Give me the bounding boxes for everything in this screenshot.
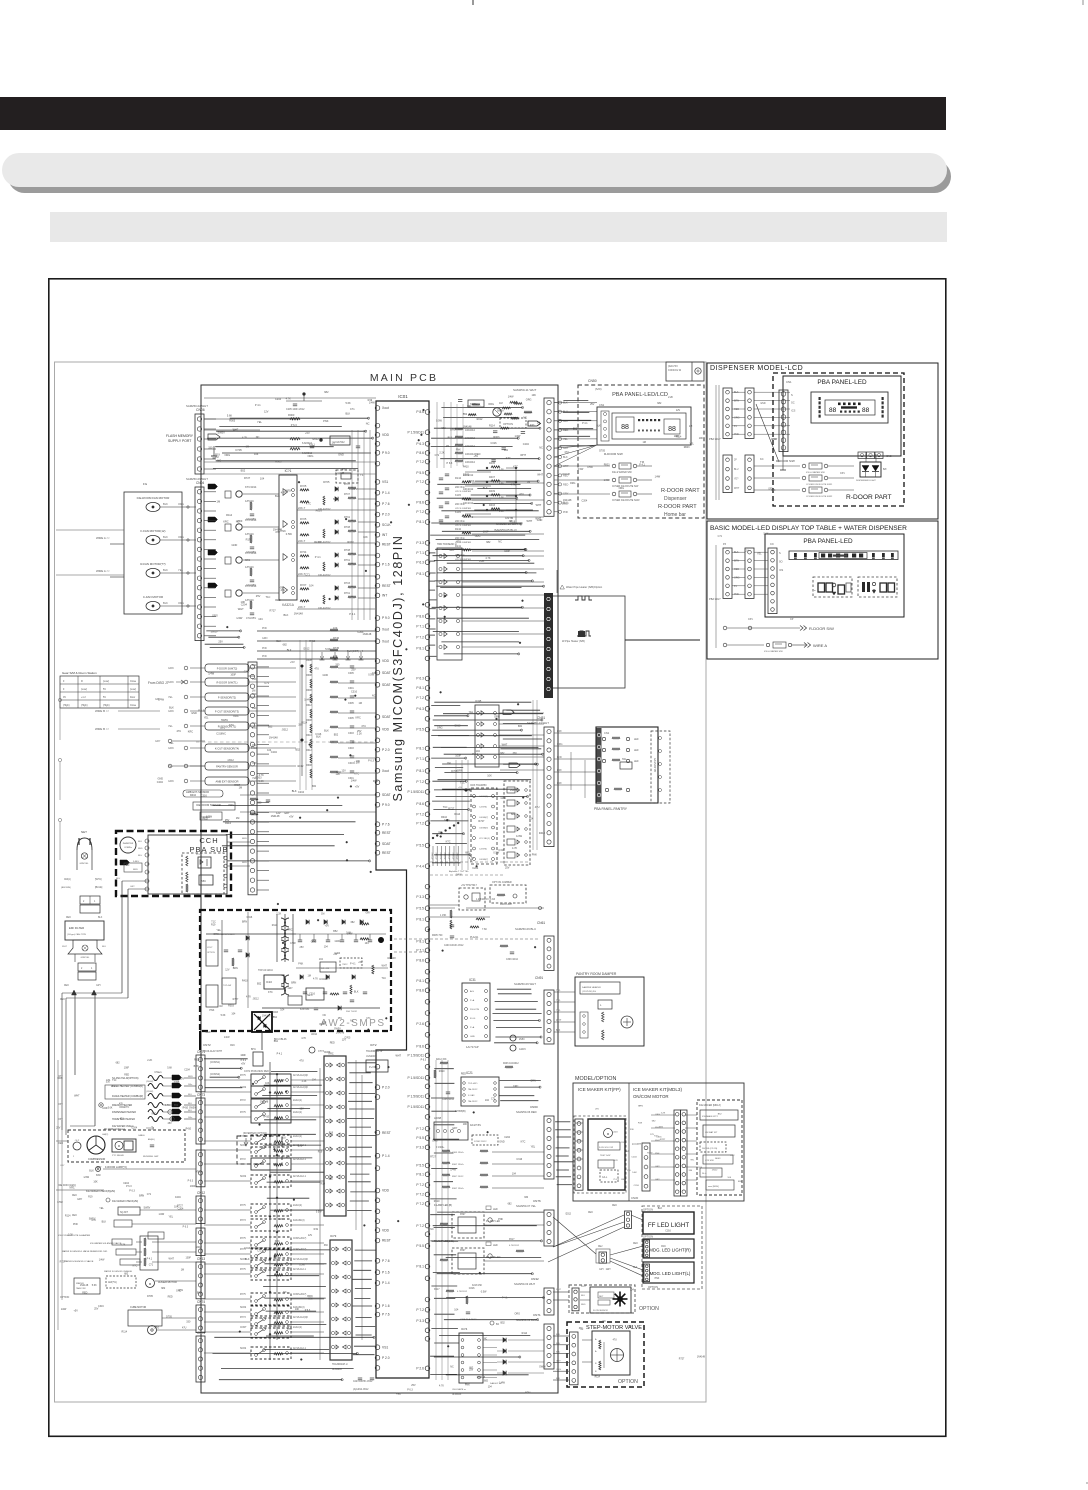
svg-text:P 5.5: P 5.5: [416, 471, 424, 475]
svg-text:/2012: /2012: [311, 1033, 318, 1036]
svg-text:0.5W: 0.5W: [493, 851, 499, 854]
svg-text:330: 330: [208, 446, 213, 449]
svg-text:R410: R410: [263, 1116, 269, 1119]
svg-text:SAM250-09 WHT: SAM250-09 WHT: [186, 477, 208, 481]
svg-text:C305 1904+: C305 1904+: [452, 1152, 465, 1154]
svg-text:P 6.3: P 6.3: [447, 462, 453, 465]
svg-text:BLK: BLK: [483, 487, 488, 490]
svg-text:RED: RED: [563, 483, 568, 486]
svg-text:PNK: PNK: [73, 1223, 78, 1226]
svg-text:OPT: OPT: [58, 1119, 63, 1121]
svg-text:SDAT: SDAT: [382, 715, 391, 719]
svg-text:0.5W: 0.5W: [290, 942, 296, 945]
svg-text:BRF: BRF: [557, 782, 562, 785]
svg-text:PNK: PNK: [498, 1218, 503, 1221]
svg-text:NC: NC: [283, 1291, 287, 1294]
svg-text:2.2K: 2.2K: [439, 452, 444, 455]
svg-text:ICE MAKER KIT(FP): ICE MAKER KIT(FP): [578, 1087, 621, 1092]
svg-text:4CON2: 4CON2: [453, 852, 455, 860]
svg-text:1/4W: 1/4W: [236, 616, 243, 620]
svg-text:RY75: RY75: [240, 1205, 246, 1207]
svg-text:5.6K: 5.6K: [221, 1014, 226, 1017]
svg-text:B52: B52: [241, 469, 246, 473]
svg-text:4CON2: 4CON2: [449, 852, 451, 860]
svg-text:P 4.1: P 4.1: [315, 555, 322, 559]
svg-text:PANTRY ROOM DAMPER: PANTRY ROOM DAMPER: [576, 972, 617, 976]
svg-text:IC21: IC21: [466, 1071, 473, 1075]
svg-text:C71: C71: [220, 727, 225, 730]
svg-text:PNK: PNK: [262, 627, 267, 630]
svg-text:RED: RED: [138, 848, 143, 850]
svg-text:R90? /2012: R90? /2012: [452, 1176, 464, 1178]
svg-text:5.6K: 5.6K: [632, 1172, 637, 1174]
svg-text:R003: R003: [493, 436, 500, 439]
svg-text:NC: NC: [222, 732, 226, 735]
svg-text:12V: 12V: [264, 411, 269, 414]
svg-text:D705: D705: [236, 448, 243, 452]
svg-text:WHT: WHT: [556, 1289, 562, 1291]
svg-text:4.7K: 4.7K: [286, 398, 291, 401]
svg-text:(200W): (200W): [146, 1081, 153, 1083]
svg-text:RED: RED: [60, 999, 65, 1001]
svg-text:P 7.2: P 7.2: [416, 1224, 424, 1228]
svg-text:BLK: BLK: [282, 1137, 287, 1140]
svg-text:PNK: PNK: [262, 647, 267, 650]
svg-text:PNK: PNK: [465, 1384, 470, 1387]
svg-text:2AAC(2): 2AAC(2): [293, 1326, 302, 1329]
svg-text:GRN: GRN: [168, 780, 174, 783]
svg-text:R727: R727: [234, 784, 241, 787]
svg-text:R608: R608: [306, 689, 312, 692]
svg-text:ICE WATER CMGa): ICE WATER CMGa): [112, 1125, 134, 1128]
svg-text:1/4W: 1/4W: [158, 698, 164, 701]
svg-text:C71: C71: [491, 1097, 496, 1100]
svg-text:YEL: YEL: [556, 1010, 561, 1012]
svg-text:KRC: KRC: [275, 1240, 280, 1243]
svg-text:MAIN PCB: MAIN PCB: [370, 372, 438, 384]
svg-text:R003: R003: [228, 1005, 234, 1008]
svg-text:WHT: WHT: [535, 517, 541, 520]
svg-text:SCR2: SCR2: [240, 1176, 247, 1178]
svg-text:VDD: VDD: [382, 659, 390, 663]
svg-text:DISPENSER MODEL-LCD: DISPENSER MODEL-LCD: [710, 365, 803, 372]
svg-text:OPTION: OPTION: [643, 1208, 653, 1212]
svg-text:BLK: BLK: [284, 613, 289, 617]
svg-text:Dispenser: Dispenser: [664, 496, 687, 502]
svg-text:ORG: ORG: [119, 1107, 124, 1109]
svg-text:CN71: CN71: [533, 1313, 541, 1317]
svg-text:47U: 47U: [275, 530, 280, 534]
svg-text:NC: NC: [603, 1321, 607, 1323]
svg-text:BRN: BRN: [139, 1194, 144, 1197]
svg-text:C316: C316: [634, 1185, 640, 1187]
svg-text:C204: C204: [131, 1127, 137, 1130]
svg-text:(S/D): (S/D): [595, 387, 602, 391]
svg-text:P 8.1: P 8.1: [416, 520, 424, 524]
svg-text:BLK: BLK: [169, 706, 174, 709]
svg-text:12V: 12V: [225, 969, 230, 972]
svg-text:CN32: CN32: [531, 1277, 539, 1281]
svg-text:GRY: GRY: [96, 985, 101, 987]
svg-text:47U: 47U: [613, 1340, 618, 1342]
svg-text:R410: R410: [309, 640, 316, 643]
svg-text:REST: REST: [382, 584, 391, 588]
svg-text:NET: NET: [81, 830, 87, 834]
svg-text:2.2K: 2.2K: [68, 1234, 73, 1237]
svg-text:ORG: ORG: [557, 743, 563, 746]
svg-text:SAM250-06 RED: SAM250-06 RED: [516, 1110, 537, 1114]
svg-text:RED: RED: [72, 1195, 77, 1197]
svg-text:OPTION: OPTION: [639, 1306, 659, 1312]
svg-text:BLK: BLK: [102, 946, 107, 948]
svg-text:GRY: GRY: [96, 1166, 102, 1169]
svg-text:P 8.1: P 8.1: [416, 572, 424, 576]
svg-text:R410: R410: [463, 465, 470, 468]
svg-text:104: 104: [319, 958, 324, 961]
svg-text:C316: C316: [665, 1230, 671, 1232]
svg-text:PBA PANEL-LED: PBA PANEL-LED: [817, 379, 867, 386]
svg-text:GRY: GRY: [606, 1269, 611, 1271]
svg-text:104: 104: [324, 945, 329, 948]
svg-text:P 7.2: P 7.2: [416, 696, 424, 700]
svg-text:KTC3194: KTC3194: [245, 485, 257, 489]
svg-text:4.7K: 4.7K: [301, 1037, 306, 1040]
svg-text:K145: K145: [455, 494, 461, 497]
svg-text:SAM250-11 WHT: SAM250-11 WHT: [513, 388, 536, 392]
svg-text:R005 700: R005 700: [432, 934, 443, 937]
svg-text:GRY: GRY: [366, 911, 372, 914]
svg-text:R-DEF-HEATER (COMBA(R): R-DEF-HEATER (COMBA(R): [112, 1095, 143, 1098]
svg-text:RED: RED: [252, 707, 257, 710]
svg-text:/7012: /7012: [342, 964, 348, 966]
svg-text:From DISO J7: From DISO J7: [148, 681, 169, 685]
svg-text:GRY: GRY: [130, 886, 135, 888]
svg-text:P 3.3: P 3.3: [416, 895, 424, 899]
svg-text:/2012: /2012: [303, 648, 310, 651]
svg-text:BLK: BLK: [89, 1170, 94, 1173]
svg-text:K-CUT-SENSOR(T4): K-CUT-SENSOR(T4): [215, 747, 239, 751]
svg-text:BLK: BLK: [188, 1110, 193, 1112]
svg-text:MDG. LED LIGHT(L): MDG. LED LIGHT(L): [650, 1271, 691, 1276]
svg-text:A1015: A1015: [519, 1048, 526, 1051]
svg-text:1M: 1M: [771, 427, 774, 429]
svg-text:P 2.0: P 2.0: [382, 748, 390, 752]
svg-text:AUGER MOTOR: AUGER MOTOR: [158, 1281, 177, 1284]
svg-text:WHT: WHT: [527, 520, 533, 523]
svg-text:ORG: ORG: [252, 762, 258, 765]
svg-text:BRN: BRN: [734, 560, 739, 563]
svg-text:1M: 1M: [689, 425, 692, 428]
svg-text:YEL: YEL: [689, 443, 694, 446]
svg-text:CN50: CN50: [588, 379, 597, 383]
svg-text:JC902 /2012: JC902 /2012: [474, 1141, 487, 1143]
svg-text:KTC: KTC: [506, 457, 511, 460]
svg-text:OPTION: OPTION: [648, 1285, 658, 1289]
svg-text:OPTION: OPTION: [643, 1235, 653, 1239]
svg-text:PK06-11AV WHT: PK06-11AV WHT: [203, 1050, 223, 1053]
svg-text:C-FAN MOTOR: C-FAN MOTOR: [143, 595, 163, 599]
svg-text:IC31: IC31: [469, 978, 476, 982]
svg-text:FG: FG: [143, 482, 148, 486]
svg-text:OPTION: OPTION: [60, 1296, 69, 1299]
svg-text:P 1.5/SD11: P 1.5/SD11: [407, 1105, 424, 1109]
svg-text:DAMPER HEATER: DAMPER HEATER: [582, 986, 601, 989]
svg-text:K597: K597: [460, 1214, 466, 1216]
svg-text:GRN: GRN: [168, 747, 174, 750]
svg-text:CN74: CN74: [197, 1300, 205, 1304]
svg-text:2AAC(2): 2AAC(2): [293, 1135, 302, 1138]
svg-text:RED: RED: [588, 1212, 593, 1214]
svg-text:WHT: WHT: [581, 1286, 587, 1288]
svg-text:CP1: CP1: [840, 472, 845, 475]
svg-text:KRC: KRC: [223, 520, 229, 524]
svg-text:C223 100HF /2012: C223 100HF /2012: [353, 1381, 373, 1383]
svg-text:1N4148: 1N4148: [477, 1376, 486, 1379]
svg-text:R-DOOR S/W: R-DOOR S/W: [776, 459, 795, 463]
svg-text:02-SS-112(2)F: 02-SS-112(2)F: [293, 1317, 309, 1319]
svg-text:+5V: +5V: [279, 586, 284, 590]
svg-text:O4 BB(7): O4 BB(7): [479, 817, 488, 819]
svg-text:200 Ohm: 200 Ohm: [455, 520, 465, 523]
svg-text:SW5V: SW5V: [562, 502, 569, 505]
svg-text:R410: R410: [441, 816, 448, 819]
svg-text:R725: R725: [300, 484, 307, 488]
svg-text:WHT: WHT: [169, 1257, 175, 1260]
svg-text:47U: 47U: [314, 668, 319, 671]
svg-text:SAM250-02 WHT: SAM250-02 WHT: [186, 404, 208, 408]
svg-text:GRY: GRY: [288, 987, 294, 990]
svg-text:25V: 25V: [218, 641, 223, 644]
svg-text:25V: 25V: [590, 403, 595, 406]
svg-text:1/4W: 1/4W: [99, 1259, 105, 1262]
svg-text:LPICS JUMPER: LPICS JUMPER: [455, 525, 471, 527]
svg-text:34>: 34>: [760, 458, 765, 461]
svg-text:P 6.3: P 6.3: [614, 1179, 620, 1181]
svg-text:P 7.2: P 7.2: [416, 1308, 424, 1312]
svg-text:BRF: BRF: [557, 730, 562, 733]
svg-text:PGG P/N: PGG P/N: [470, 1009, 480, 1011]
svg-text:OFY: OFY: [60, 1165, 65, 1167]
svg-text:YEL: YEL: [257, 420, 262, 424]
svg-text:KTC: KTC: [268, 991, 273, 994]
svg-text:BLK: BLK: [316, 735, 321, 738]
svg-text:F-CUT SENSOR(T3): F-CUT SENSOR(T3): [215, 710, 239, 714]
svg-text:(DAI-HXI: (DAI-HXI: [668, 365, 678, 368]
svg-text:KTC: KTC: [521, 1141, 526, 1144]
svg-text:P+A: P+A: [470, 999, 475, 1002]
svg-text:R114: R114: [697, 1167, 703, 1169]
svg-text:R410: R410: [434, 1200, 440, 1203]
svg-text:F-FAN MOTOR(12): F-FAN MOTOR(12): [141, 529, 166, 533]
svg-text:4.7K: 4.7K: [281, 491, 287, 495]
svg-text:R19: R19: [318, 1150, 323, 1153]
svg-text:02-SS-112-1: 02-SS-112-1: [293, 1176, 307, 1178]
svg-text:ICE & WATER S/W: ICE & WATER S/W: [806, 471, 826, 474]
svg-text:Close: Close: [130, 680, 137, 683]
svg-text:YEL: YEL: [447, 762, 452, 765]
svg-text:682: 682: [312, 785, 317, 788]
svg-text:R003: R003: [684, 446, 690, 449]
svg-text:100F: 100F: [237, 519, 243, 523]
svg-text:(BROWN): (BROWN): [61, 887, 71, 889]
svg-text:OPTION: OPTION: [503, 422, 513, 426]
svg-text:C204: C204: [468, 480, 475, 483]
svg-text:104: 104: [231, 1012, 236, 1015]
svg-text:KTC3194: KTC3194: [245, 551, 257, 555]
svg-text:100F: 100F: [504, 550, 510, 553]
svg-text:ORG: ORG: [734, 576, 740, 579]
svg-text:RED: RED: [734, 568, 739, 571]
svg-text:A/G: A/G: [470, 990, 474, 993]
svg-text:10K-F/2012: 10K-F/2012: [318, 574, 331, 577]
svg-text:C605: C605: [348, 672, 354, 675]
svg-text:7.6K: 7.6K: [482, 928, 487, 931]
svg-text:1/4W: 1/4W: [456, 874, 462, 877]
svg-text:B52: B52: [257, 982, 262, 985]
svg-text:682: 682: [486, 541, 491, 544]
svg-text:BLK: BLK: [163, 535, 168, 539]
svg-text:B52: B52: [274, 1040, 279, 1043]
svg-text:COVER ICE ROUTE S/W2: COVER ICE ROUTE S/W2: [612, 500, 640, 502]
svg-text:PBA PANEL-LED: PBA PANEL-LED: [803, 538, 853, 545]
svg-text:RED: RED: [168, 1296, 173, 1299]
svg-text:R003: R003: [275, 460, 282, 464]
svg-text:KIA7042: KIA7042: [335, 441, 345, 444]
svg-text:O4 BB(7): O4 BB(7): [479, 828, 488, 830]
svg-text:S: S: [791, 393, 793, 397]
svg-text:4.7K: 4.7K: [165, 1105, 170, 1107]
svg-text:R727: R727: [430, 1155, 436, 1158]
svg-text:P 9.0: P 9.0: [382, 803, 390, 807]
svg-text:R-DOOR S/W: R-DOOR S/W: [809, 626, 834, 631]
svg-text:R19: R19: [661, 1246, 666, 1248]
svg-text:SW5V: SW5V: [189, 1107, 196, 1110]
svg-text:KTC: KTC: [354, 773, 359, 776]
svg-text:TDA30R2AP or: TDA30R2AP or: [366, 1050, 383, 1053]
svg-text:Close: Close: [130, 704, 137, 707]
svg-text:104: 104: [454, 1309, 459, 1312]
svg-text:R003: R003: [604, 464, 610, 467]
svg-text:/CS: /CS: [779, 569, 784, 572]
svg-text:5.6K: 5.6K: [764, 533, 769, 536]
svg-text:YEL: YEL: [168, 696, 173, 699]
svg-text:/2012: /2012: [282, 729, 289, 732]
svg-text:PLA211: PLA211: [470, 936, 479, 939]
svg-text:YEL: YEL: [99, 1207, 104, 1210]
svg-text:[WH1]: [WH1]: [95, 879, 102, 881]
svg-text:BLK: BLK: [354, 990, 359, 993]
svg-text:4.7K: 4.7K: [242, 437, 247, 440]
svg-text:WIRE A <<: WIRE A <<: [96, 569, 110, 573]
svg-text:/2012: /2012: [253, 997, 260, 1000]
svg-text:K517: K517: [434, 1288, 440, 1291]
svg-text:ON/COM MOTOR: ON/COM MOTOR: [633, 1094, 669, 1099]
svg-text:02-SS-112-1: 02-SS-112-1: [293, 1159, 307, 1161]
svg-text:TD2-H2O: TD2-H2O: [468, 1083, 478, 1085]
svg-text:BRN: BRN: [242, 920, 247, 923]
svg-text:NC: NC: [484, 1337, 488, 1340]
svg-text:C71: C71: [257, 1250, 262, 1253]
svg-text:R19: R19: [215, 452, 220, 456]
svg-text:KA321A: KA321A: [282, 603, 295, 607]
svg-text:VOLT: VOLT: [207, 947, 213, 949]
svg-text:WHT: WHT: [556, 1020, 562, 1022]
svg-text:P 8.1: P 8.1: [416, 939, 424, 943]
svg-text:P 7.2: P 7.2: [416, 510, 424, 514]
svg-text:R114: R114: [454, 813, 460, 816]
svg-text:KRC: KRC: [356, 716, 361, 719]
svg-text:R727: R727: [300, 583, 307, 587]
svg-text:CE-WAT KIT: CE-WAT KIT: [705, 1131, 718, 1134]
svg-text:B52: B52: [197, 1292, 202, 1295]
svg-text:KTC: KTC: [287, 1328, 292, 1331]
svg-text:B52: B52: [174, 1104, 179, 1107]
svg-text:WIRE B <<: WIRE B <<: [95, 709, 109, 713]
svg-text:R608: R608: [306, 764, 312, 767]
svg-text:RED: RED: [275, 598, 281, 602]
svg-text:104: 104: [309, 583, 314, 587]
svg-text:10K: 10K: [333, 627, 338, 630]
svg-text:P 8.1: P 8.1: [416, 979, 424, 983]
svg-text:(INVERTER) OPTION: (INVERTER) OPTION: [243, 1132, 267, 1135]
svg-text:T1C: T1C: [382, 977, 387, 980]
svg-text:NC: NC: [233, 430, 237, 433]
svg-text:GRN: GRN: [168, 681, 174, 684]
svg-text:R734: R734: [300, 550, 307, 554]
svg-text:REST: REST: [382, 831, 391, 835]
svg-text:AN(BL): AN(BL): [148, 1138, 155, 1141]
svg-text:SDAT: SDAT: [382, 683, 391, 687]
svg-text:R409: R409: [489, 490, 496, 493]
svg-text:BLK: BLK: [245, 1258, 250, 1261]
svg-text:BLK: BLK: [346, 412, 351, 415]
svg-text:YE?: YE?: [734, 479, 739, 481]
svg-text:AMB EXT-SENSOR: AMB EXT-SENSOR: [215, 780, 238, 784]
svg-text:R114: R114: [122, 1331, 128, 1334]
svg-text:KRC: KRC: [245, 558, 251, 562]
svg-text:4.7K: 4.7K: [246, 996, 251, 999]
svg-text:RED: RED: [581, 1304, 586, 1306]
svg-text:02-SS-112(2)F: 02-SS-112(2)F: [293, 1075, 309, 1077]
svg-text:ORG: ORG: [556, 1369, 561, 1371]
svg-text:1/4W: 1/4W: [224, 1036, 230, 1039]
svg-text:CN06: CN06: [196, 408, 205, 412]
svg-text:HDN TDDSENF kt: HDN TDDSENF kt: [437, 543, 457, 546]
svg-text:02-SS-112(2)F: 02-SS-112(2)F: [293, 1259, 309, 1261]
svg-text:P 4.1: P 4.1: [502, 1296, 508, 1299]
svg-text:VDD: VDD: [382, 433, 390, 437]
svg-text:P 1.6: P 1.6: [382, 1270, 390, 1274]
svg-text:47U: 47U: [361, 725, 366, 728]
svg-text:330: 330: [255, 1163, 260, 1166]
svg-text:BLK: BLK: [188, 1094, 193, 1096]
svg-text:ORG: ORG: [619, 487, 625, 490]
svg-text:1/4W: 1/4W: [208, 672, 214, 675]
svg-text:10K: 10K: [532, 394, 537, 397]
svg-text:ORG: ORG: [252, 693, 258, 696]
svg-text:SDAT: SDAT: [382, 671, 391, 675]
svg-text:P+VCC: P+VCC: [369, 1066, 378, 1069]
svg-text:WHT: WHT: [74, 1095, 80, 1098]
svg-text:P 6.3: P 6.3: [416, 560, 424, 564]
svg-text:RY75: RY75: [240, 1238, 246, 1240]
svg-text:R761: R761: [344, 516, 351, 519]
svg-text:SDAT: SDAT: [382, 793, 391, 797]
svg-text:BRF: BRF: [557, 769, 562, 772]
svg-text:ULN2003: ULN2003: [332, 1369, 342, 1371]
svg-text:F 1904+: F 1904+: [436, 1147, 445, 1149]
svg-text:C204: C204: [582, 499, 588, 502]
